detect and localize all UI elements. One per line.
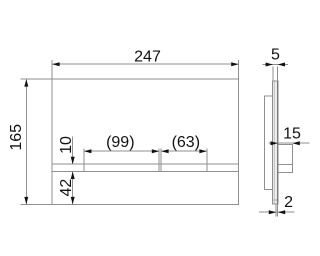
svg-text:165: 165	[8, 124, 25, 151]
svg-text:5: 5	[271, 47, 280, 64]
svg-text:15: 15	[283, 126, 301, 143]
svg-text:(99): (99)	[106, 134, 134, 151]
svg-text:247: 247	[134, 49, 161, 66]
svg-text:42: 42	[58, 179, 75, 197]
svg-text:10: 10	[58, 136, 75, 154]
svg-text:(63): (63)	[172, 134, 200, 151]
svg-text:2: 2	[284, 194, 293, 211]
